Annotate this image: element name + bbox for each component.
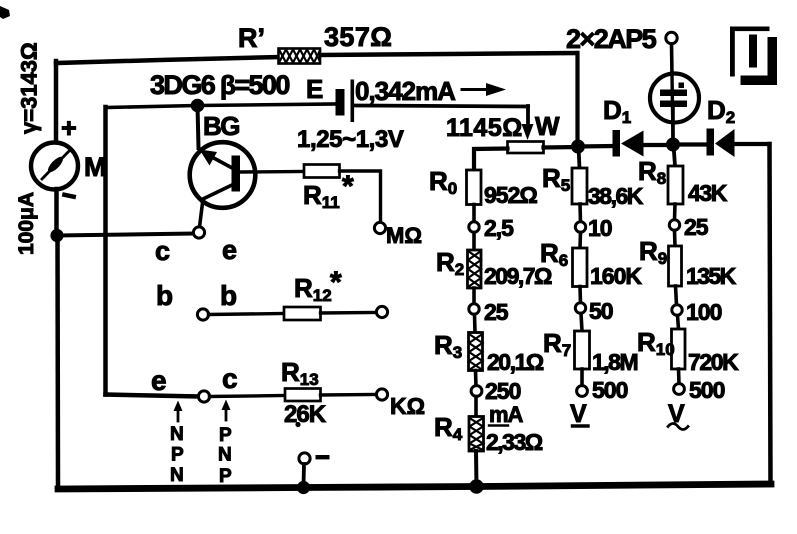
wire node1 to D1 <box>578 144 612 149</box>
resistor R9 box <box>669 246 682 286</box>
svg-text:3DG6 β=500: 3DG6 β=500 <box>150 70 289 100</box>
svg-text:50: 50 <box>589 298 613 324</box>
tube 2AP5 circle <box>650 74 699 123</box>
wire bottom bus <box>58 484 771 489</box>
wire socket to R13 <box>210 396 286 397</box>
transistor BG base bar <box>232 156 241 192</box>
wire vertical x=105 from base row down <box>103 107 108 395</box>
wire junction to socket c/e <box>57 234 193 236</box>
wire R7 to terminal 500 <box>580 369 584 386</box>
svg-text:M: M <box>84 152 107 182</box>
svg-text:e: e <box>151 365 167 396</box>
svg-text:20,1Ω: 20,1Ω <box>487 349 544 375</box>
svg-text:N: N <box>170 465 184 486</box>
socket circle b <box>197 309 208 320</box>
transistor BG circle <box>190 142 256 208</box>
wire 2AP5 down to node2 <box>671 107 675 144</box>
svg-text:500: 500 <box>592 377 628 403</box>
wire terminal2.5 to R2 <box>472 233 476 251</box>
svg-text:25: 25 <box>684 214 709 240</box>
svg-text:R11: R11 <box>303 180 340 212</box>
label minus <box>316 455 330 459</box>
wire R12 to terminal <box>321 311 377 315</box>
svg-text:R0: R0 <box>429 166 457 198</box>
wire node1 to R5 <box>579 147 580 168</box>
wire R3 to terminal 250 <box>474 371 478 387</box>
svg-text:1145Ω: 1145Ω <box>446 114 523 142</box>
terminal circle 2.5 <box>469 222 479 232</box>
battery E <box>336 80 355 123</box>
wire node2 to R8 <box>674 145 676 166</box>
resistor R11 box <box>304 165 340 178</box>
svg-text:R2: R2 <box>436 247 464 279</box>
wire R8 to terminal 25 <box>673 204 677 220</box>
svg-text:E: E <box>306 74 323 104</box>
meter needle <box>42 151 70 180</box>
svg-text:P: P <box>219 466 232 487</box>
wire left vertical down to bottom bus <box>55 236 60 488</box>
terminal circle 500 (col2) <box>577 386 588 397</box>
terminal circle 10 <box>575 222 585 232</box>
resistor R2 (hatched) <box>468 250 482 288</box>
label V- (DC volts) <box>570 400 588 428</box>
wire terminal25 to R3 <box>473 315 477 333</box>
svg-text:BG: BG <box>203 111 239 141</box>
wire D2 to right edge <box>734 142 770 146</box>
svg-text:2,33Ω: 2,33Ω <box>486 429 543 455</box>
wire minus to bus <box>302 464 306 486</box>
svg-text:*: * <box>330 266 342 299</box>
label 2.6K <box>284 401 327 428</box>
wire W right to node1 <box>544 145 579 150</box>
svg-text:D2: D2 <box>707 95 735 127</box>
resistor R' (hatched box) <box>279 49 321 64</box>
svg-text:b: b <box>156 280 173 311</box>
svg-text:P: P <box>219 425 232 446</box>
wire R10 to terminal 500 <box>677 369 681 384</box>
potentiometer W box <box>508 142 544 154</box>
svg-text:R4: R4 <box>434 412 463 444</box>
arrow PNP up <box>222 400 231 421</box>
svg-text:c: c <box>155 236 170 266</box>
transistor BG base lead <box>240 170 304 174</box>
label NPN (vertical) <box>170 424 184 486</box>
wire R9 to terminal 100 <box>676 286 677 305</box>
svg-text:952Ω: 952Ω <box>484 182 537 208</box>
socket circle c/e <box>193 227 204 238</box>
arrow right (current direction) <box>462 83 506 96</box>
resistor R4 (hatched) <box>469 417 484 452</box>
wire R4 to bottom bus <box>474 451 479 487</box>
wire terminal10 to R6 <box>578 233 582 249</box>
junction dot node2 <box>666 138 680 152</box>
svg-text:W: W <box>535 111 560 141</box>
wire corner x105 to socket e/c row3 <box>106 395 199 397</box>
wire right edge vertical <box>770 144 771 485</box>
socket circle row3 <box>198 391 209 402</box>
wire R0 to terminal 2.5 <box>472 205 476 223</box>
wire R13 to KOhm terminal <box>321 393 377 397</box>
wire meter- down to junction <box>54 189 59 236</box>
resistor R13 box <box>285 389 321 402</box>
svg-text:γ=3143Ω: γ=3143Ω <box>17 42 42 134</box>
svg-text:R’: R’ <box>238 23 265 53</box>
svg-text:100: 100 <box>686 299 722 325</box>
svg-text:500: 500 <box>689 377 725 403</box>
svg-text:10: 10 <box>588 215 612 241</box>
svg-text:720K: 720K <box>688 349 739 375</box>
svg-text:43K: 43K <box>688 180 728 206</box>
terminal circle KOhm <box>376 389 387 400</box>
terminal circle 100 <box>672 305 682 315</box>
wire W left to R0 <box>474 149 508 171</box>
logo mark top right <box>730 27 777 86</box>
arrow W wiper <box>522 124 534 140</box>
terminal circle 50 <box>575 303 585 313</box>
terminal circle 25 (col1) <box>469 304 479 314</box>
svg-text:N: N <box>170 424 184 445</box>
label - (meter minus) <box>62 192 77 199</box>
wire 2AP5 terminal down <box>670 44 674 75</box>
wire battery+ to W corner <box>354 106 528 107</box>
terminal circle 250 <box>471 386 482 397</box>
wire terminal50 to R7 <box>581 314 582 332</box>
svg-text:250: 250 <box>485 378 521 404</box>
wire top bus from meter+ to node top <box>56 57 278 63</box>
svg-text:R13: R13 <box>281 357 319 389</box>
wire R5 to terminal 10 <box>578 204 582 222</box>
svg-text:135K: 135K <box>686 263 737 289</box>
svg-text:R12: R12 <box>294 273 332 305</box>
wire D1 to node2 <box>643 143 673 147</box>
resistor R6 box <box>573 248 588 287</box>
terminal circle 2AP5 top <box>666 32 677 43</box>
resistor R0 box <box>467 170 482 205</box>
resistor R5 box <box>572 168 587 204</box>
svg-text:R6: R6 <box>540 238 568 270</box>
svg-text:MΩ: MΩ <box>386 223 422 248</box>
svg-text:R3: R3 <box>434 330 462 362</box>
svg-text:357Ω: 357Ω <box>324 22 392 52</box>
wire W wiper drop <box>526 106 530 126</box>
label V~ (AC volts) <box>668 400 688 430</box>
svg-text:D1: D1 <box>603 95 631 127</box>
svg-text:b: b <box>220 280 237 311</box>
label mA (underlined) <box>489 402 524 427</box>
svg-text:26K: 26K <box>284 401 327 428</box>
svg-text:mA: mA <box>489 402 524 427</box>
resistor R7 box <box>575 331 590 369</box>
resistor R3 (hatched) <box>469 333 483 371</box>
wire top bus right of R' <box>320 53 577 55</box>
wire terminal100 to R10 <box>678 316 679 330</box>
svg-text:*: * <box>342 170 354 203</box>
wire horizontal base row y~106 <box>106 104 337 108</box>
junction dot node1 <box>571 140 585 154</box>
svg-text:25: 25 <box>484 299 509 325</box>
wire R6 to terminal 50 <box>578 287 582 304</box>
svg-text:2,5: 2,5 <box>484 215 514 241</box>
arrow NPN up <box>174 401 183 422</box>
wire node2 to D2 <box>673 142 706 146</box>
svg-text:R9: R9 <box>639 236 667 268</box>
wire left vertical meter+ <box>54 61 59 143</box>
resistor R12 box <box>284 307 321 320</box>
junction dot R4 bus <box>469 479 483 493</box>
svg-text:1,25~1,3V: 1,25~1,3V <box>297 126 404 153</box>
wire terminal25 to R9 <box>673 231 677 247</box>
wire top corner down to node1 <box>575 53 579 147</box>
diode D2 <box>707 129 735 158</box>
transistor BG collector line <box>200 184 235 227</box>
transistor BG emitter arrow <box>200 150 235 170</box>
svg-text:2×2AP5: 2×2AP5 <box>566 24 657 54</box>
wire b to R12 <box>209 314 285 315</box>
junction dot BG emitter node <box>191 99 205 113</box>
terminal circle 500 (col3) <box>674 384 685 395</box>
tube 2AP5 inner plates <box>660 75 687 140</box>
terminal circle Mohm <box>374 222 385 233</box>
wire R2 to terminal 25 <box>472 288 476 304</box>
svg-text:R7: R7 <box>543 328 571 360</box>
svg-text:100μA: 100μA <box>15 192 38 255</box>
svg-text:P: P <box>171 445 184 466</box>
svg-text:e: e <box>222 235 237 265</box>
wire terminal250 to R4 <box>474 397 478 417</box>
speck top-left corner <box>0 6 10 19</box>
junction dot meter minus node <box>50 229 63 242</box>
svg-text:R8: R8 <box>638 156 666 188</box>
svg-text:c: c <box>222 363 238 394</box>
svg-text:1,8M: 1,8M <box>592 349 637 375</box>
meter M circle <box>31 143 78 190</box>
wire BG emitter lead <box>198 105 199 148</box>
svg-text:+: + <box>61 113 77 143</box>
svg-text:KΩ: KΩ <box>390 393 425 419</box>
junction dot minus bus <box>297 481 310 494</box>
terminal circle 25 (col3) <box>669 220 679 230</box>
svg-text:R10: R10 <box>637 327 675 359</box>
label PNP (vertical) <box>218 425 232 487</box>
terminal circle R12 right <box>376 306 387 317</box>
svg-text:N: N <box>218 445 232 466</box>
svg-text:V: V <box>570 400 587 428</box>
svg-text:38,6K: 38,6K <box>588 183 644 209</box>
terminal circle minus <box>299 453 310 464</box>
svg-text:0,342mA: 0,342mA <box>355 76 456 106</box>
resistor R8 box <box>668 166 683 204</box>
svg-text:160K: 160K <box>590 263 642 289</box>
svg-text:R5: R5 <box>542 163 570 195</box>
diode D1 <box>613 130 644 157</box>
resistor R10 box <box>672 329 686 369</box>
wire R11 to Mohm terminal <box>340 171 381 222</box>
